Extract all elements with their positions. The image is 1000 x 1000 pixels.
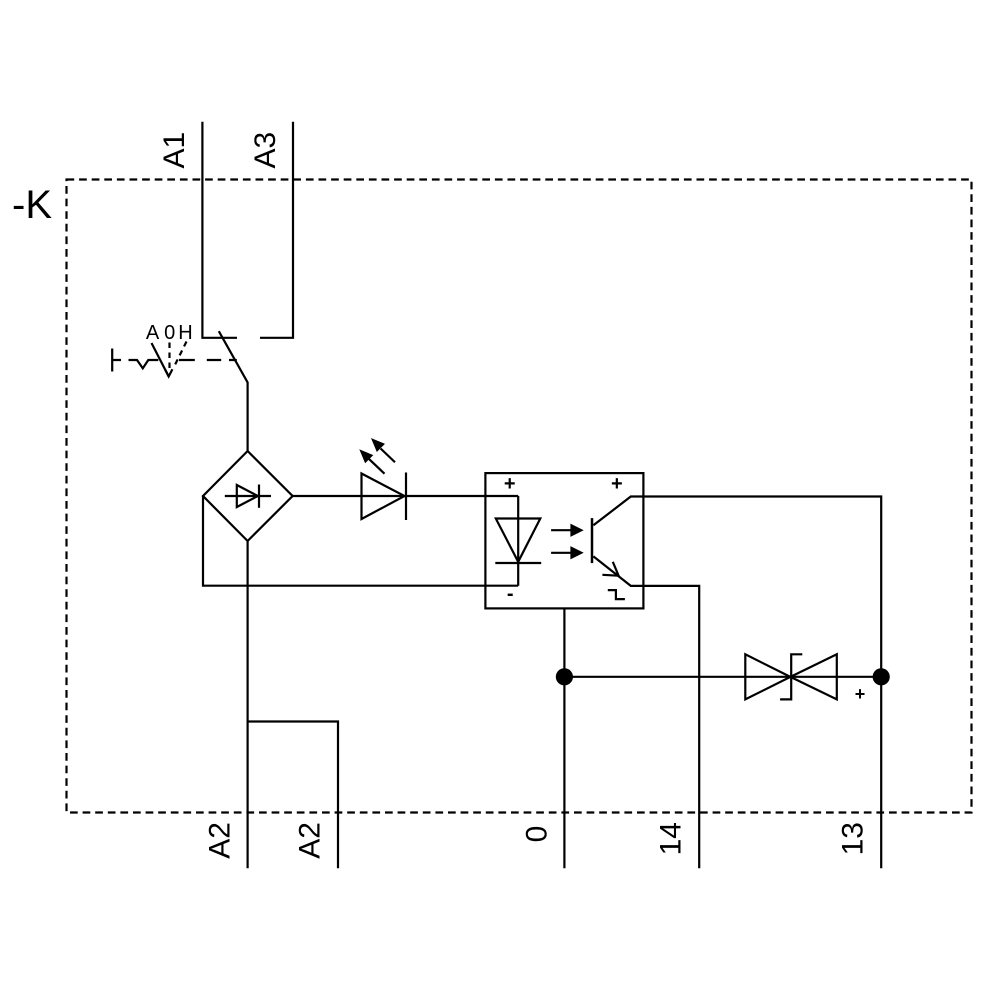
wire terminal 0 from optocoupler bottom: [563, 608, 565, 868]
optocoupler U1 internal LED cathode bar: [495, 562, 541, 564]
TVS suppressor V3 zener bar: [780, 654, 802, 699]
optocoupler U1 phototransistor base bar: [591, 518, 594, 563]
svg-text:A: A: [146, 322, 160, 344]
switch S1 position line 0 (dashed with arrow): [168, 343, 170, 372]
optocoupler U1 light arrow 1: [551, 529, 571, 531]
terminal wire A3: [260, 122, 293, 338]
switch S1 position labels A 0 H: [146, 322, 193, 344]
svg-text:0: 0: [521, 826, 554, 843]
svg-text:H: H: [178, 322, 192, 344]
wire to second A2 terminal: [248, 722, 338, 869]
terminal wire A1: [202, 122, 237, 338]
wire bridge output to LED and optocoupler input: [293, 495, 519, 497]
switch S1 position line A (solid): [152, 343, 169, 377]
junction node at 0 wire: [556, 668, 573, 685]
bridge rectifier V1 diamond: [203, 451, 293, 541]
LED V2 light arrow 1: [369, 459, 385, 474]
svg-text:13: 13: [837, 822, 870, 855]
wire A2 from bridge bottom vertex: [247, 541, 249, 868]
switch S1 mechanical dash-dot link with detent zigzag: [129, 360, 237, 368]
svg-text:A3: A3: [249, 132, 282, 169]
bridge rectifier V1 inner diode: [225, 495, 271, 497]
wire collector to terminal 13: [643, 497, 881, 869]
optocoupler U1 box: [485, 473, 643, 608]
TVS suppressor V3 left triangle: [745, 654, 790, 699]
LED V2 cathode bar: [405, 473, 407, 521]
svg-text:A1: A1: [158, 132, 191, 169]
optocoupler U1 phototransistor collector: [593, 497, 643, 526]
svg-text:+: +: [855, 684, 866, 704]
svg-text:A2: A2: [203, 822, 236, 859]
svg-text:-K: -K: [12, 183, 52, 227]
wire junction to TVS and terminal 13: [564, 676, 881, 678]
optocoupler U1 input wire: [517, 496, 519, 586]
LED V2 light arrow 2: [381, 449, 395, 463]
optocoupler U1 falling edge pulse symbol: [608, 590, 625, 599]
svg-text:-: -: [507, 583, 514, 605]
bottom rail wire from bridge left vertex: [203, 496, 518, 586]
switch S1 blade: [219, 331, 248, 451]
svg-text:+: +: [611, 473, 623, 495]
svg-text:+: +: [504, 473, 516, 495]
optocoupler U1 internal LED triangle: [496, 519, 541, 562]
LED V2 triangle: [362, 474, 405, 520]
junction node at 13 wire: [873, 668, 890, 685]
svg-text:14: 14: [655, 822, 688, 855]
dashed enclosure border: [67, 180, 972, 813]
TVS suppressor V3 right triangle: [790, 654, 836, 699]
svg-text:A2: A2: [294, 822, 327, 859]
optocoupler U1 emitter arrowhead: [602, 562, 618, 576]
switch S1 position line H (dashed): [174, 342, 187, 367]
optocoupler U1 light arrow 2: [551, 552, 571, 554]
switch S1 mechanical link tick: [112, 349, 121, 372]
svg-text:0: 0: [164, 322, 175, 344]
wire emitter to terminal 14: [643, 586, 699, 868]
optocoupler U1 phototransistor emitter: [593, 556, 643, 586]
